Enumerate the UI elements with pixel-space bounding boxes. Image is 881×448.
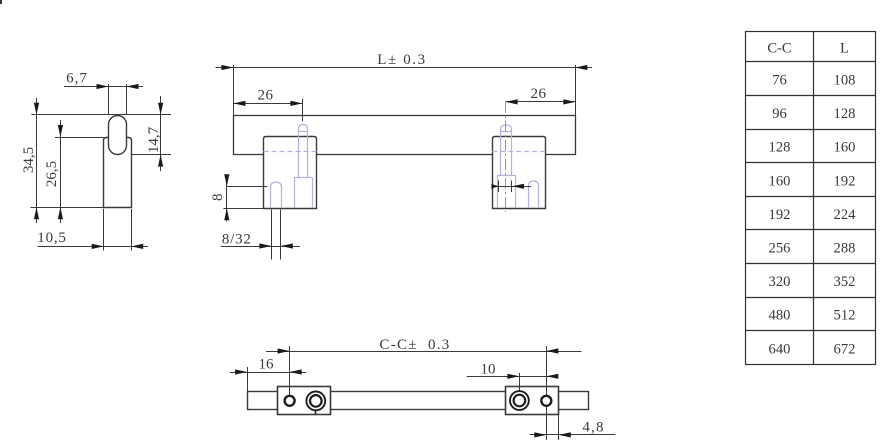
dimension line 16	[230, 372, 306, 374]
extension line: right block edge (4,8)	[558, 414, 560, 440]
extension line: right small hole center (C-C / 10 / 4,8)	[546, 346, 548, 440]
extension line: left small hole center (C-C / 16)	[289, 346, 291, 396]
extension line: left hole center	[302, 99, 304, 121]
table border	[746, 32, 876, 365]
svg-text:16: 16	[259, 357, 275, 373]
extension line: top of foot (left)	[55, 137, 104, 139]
dimension line L	[216, 67, 593, 69]
extension line: 10,5 right	[131, 209, 133, 251]
table column divider	[813, 31, 815, 364]
dimension line 10,5	[38, 246, 149, 248]
svg-text:192: 192	[834, 173, 856, 189]
dimension line 8/32	[221, 246, 300, 248]
table row lines	[746, 61, 876, 63]
arrow 10 left	[507, 374, 519, 379]
extension line: 8/32 left	[271, 210, 273, 260]
arrow 14,7 bottom	[158, 155, 163, 167]
svg-text:4,8: 4,8	[582, 420, 604, 436]
dimension line 34,5	[36, 98, 38, 223]
dimension line 26,5	[60, 120, 62, 223]
arrow 10,5 left	[92, 244, 104, 249]
svg-text:224: 224	[834, 207, 857, 223]
hidden bar bottom edge through right foot	[492, 151, 546, 153]
dimension line: right stud diameter	[492, 186, 531, 188]
svg-text:34,5: 34,5	[21, 147, 37, 173]
svg-text:76: 76	[772, 73, 787, 89]
hidden bar bottom edge through left foot	[264, 151, 317, 153]
tick: stud dia right	[511, 181, 513, 193]
arrow C-C left	[278, 348, 290, 353]
arrow 4,8 right	[559, 432, 571, 437]
extension line: L left	[233, 65, 235, 115]
svg-text:8/32: 8/32	[222, 232, 252, 248]
svg-text:14,7: 14,7	[146, 126, 162, 153]
arrow 8 bottom	[224, 208, 229, 220]
svg-text:L: L	[840, 41, 849, 57]
extension line: bottom of bar (right)	[126, 154, 171, 156]
extension line: bottom of foot (left)	[31, 207, 104, 209]
svg-text:26,5: 26,5	[44, 161, 60, 187]
svg-text:512: 512	[834, 308, 856, 324]
extension line: 8/32 right	[280, 210, 282, 260]
left threaded stud (hidden)	[294, 125, 312, 208]
svg-text:10,5: 10,5	[37, 230, 66, 246]
svg-text:L± 0.3: L± 0.3	[377, 52, 427, 68]
extension line: 6,7 left	[108, 84, 110, 115]
svg-text:8: 8	[210, 194, 226, 202]
right mounting block	[506, 387, 559, 415]
svg-text:256: 256	[769, 241, 791, 257]
centerline right hole (orange dash-dot)	[505, 102, 507, 212]
arrow 26,5 bottom	[58, 207, 63, 219]
dimension line 26 right	[506, 101, 576, 103]
extension line: bottom of left foot	[223, 208, 263, 210]
svg-text:192: 192	[769, 207, 791, 223]
arrow 34,5 bottom	[34, 207, 39, 219]
side view foot (base)	[104, 138, 132, 208]
svg-text:C-C± 0.3: C-C± 0.3	[379, 337, 450, 353]
side view handle bar end (stadium)	[109, 116, 127, 155]
arrow 6,7 right	[127, 84, 139, 89]
arrow 16 right	[290, 369, 302, 374]
corner artifact mark	[0, 0, 2, 4]
right small hole	[541, 396, 551, 406]
right foot (post)	[493, 137, 546, 209]
dimension line 10	[467, 376, 558, 378]
centerline tick below left threaded hole	[315, 411, 317, 415]
svg-text:C-C: C-C	[767, 41, 791, 57]
dimension line C-C	[266, 351, 582, 353]
dimension line 8	[226, 175, 228, 222]
arrow L right	[575, 65, 587, 70]
left small hole	[285, 396, 295, 406]
right small screw (hidden)	[529, 181, 539, 208]
arrow 34,5 top	[34, 103, 39, 115]
extension line: bar left end (16)	[247, 367, 249, 392]
svg-text:96: 96	[772, 106, 787, 122]
svg-text:160: 160	[769, 173, 791, 189]
tick: stud dia left	[498, 181, 500, 193]
dimension line 14,7	[160, 96, 162, 171]
arrow 26 right end	[563, 99, 575, 104]
svg-text:672: 672	[834, 341, 856, 357]
left foot (post)	[264, 137, 317, 209]
svg-text:128: 128	[769, 140, 791, 156]
arrow 26 left end	[233, 101, 245, 106]
svg-text:480: 480	[769, 308, 791, 324]
arrow 8/32 left	[259, 243, 271, 248]
arrow stud dia right	[512, 184, 524, 189]
handle bar	[234, 116, 576, 155]
extension line: 6,7 right	[126, 84, 128, 115]
arrow 4,8 left	[534, 432, 546, 437]
dimension line 4,8	[530, 434, 616, 436]
svg-text:10: 10	[481, 362, 496, 378]
right threaded hole (double ring)	[510, 391, 529, 410]
table text	[767, 41, 856, 358]
arrow 14,7 top	[158, 103, 163, 115]
arrow L left	[221, 65, 233, 70]
arrow 26,5 top	[58, 125, 63, 137]
bar strip	[248, 392, 589, 410]
svg-text:288: 288	[834, 241, 856, 257]
arrow 8 top	[224, 174, 229, 186]
extension line: L right	[575, 65, 577, 115]
extension line: top of left screw	[227, 186, 268, 188]
arrow 6,7 left	[97, 84, 109, 89]
arrow 10,5 right	[131, 244, 143, 249]
svg-text:128: 128	[834, 106, 856, 122]
svg-text:6,7: 6,7	[66, 71, 88, 87]
left threaded hole (double ring)	[306, 392, 325, 411]
arrow stud dia left	[491, 184, 498, 189]
left mounting block	[278, 387, 331, 415]
svg-text:160: 160	[834, 140, 856, 156]
svg-text:640: 640	[769, 341, 791, 357]
arrow C-C right	[546, 348, 558, 353]
dimension line 6,7	[64, 86, 143, 88]
svg-text:352: 352	[834, 274, 856, 290]
extension line: top of handle	[31, 114, 171, 116]
svg-text:26: 26	[258, 88, 274, 104]
arrow 10 right	[546, 374, 558, 379]
right threaded stud (hidden)	[497, 125, 515, 208]
arrow 26 right at hole	[506, 99, 518, 104]
arrow 16 left	[235, 369, 247, 374]
extension line: right large hole center (10)	[519, 373, 521, 392]
dimension line 26 left	[233, 103, 302, 105]
svg-text:26: 26	[531, 86, 547, 102]
left small screw (hidden)	[271, 182, 282, 208]
arrow 8/32 right	[281, 243, 293, 248]
extension line: 10,5 left	[103, 209, 105, 251]
arrow 26 left at hole	[290, 101, 302, 106]
svg-text:108: 108	[834, 73, 856, 89]
svg-text:320: 320	[769, 274, 791, 290]
